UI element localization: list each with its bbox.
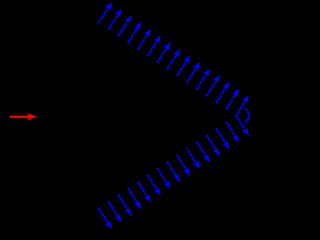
blue wave arrow, bottom front #5 <box>138 181 151 202</box>
blue wave arrow, top front #13 <box>216 82 229 103</box>
blue wave arrow, top front #9 <box>177 55 190 76</box>
blue wave arrow, bottom front #9 <box>177 155 190 176</box>
blue wave arrow, top front #3 <box>118 15 131 36</box>
blue wave arrow, bottom front #2 <box>108 201 121 222</box>
blue wave arrow, bottom front #6 <box>147 175 160 196</box>
blue wave arrow, bottom front #3 <box>118 195 131 216</box>
blue wave arrow, top front #15 <box>236 95 249 116</box>
blue wave arrow, top front #12 <box>206 75 219 96</box>
blue wave arrow, top front #8 <box>167 49 180 70</box>
blue wave arrow, top front #1 <box>98 2 111 23</box>
blue wave arrow, bottom front #16 <box>245 108 258 129</box>
blue wave arrow, top front #6 <box>147 35 160 56</box>
blue wave arrow, top front #2 <box>108 9 121 30</box>
blue wave arrow, bottom front #10 <box>187 148 200 169</box>
blue wave arrow, bottom front #4 <box>128 188 141 209</box>
blue wave arrow, bottom front #15 <box>236 115 249 136</box>
shock-wave diagram <box>0 0 250 232</box>
blue wave arrow, bottom front #12 <box>206 135 219 156</box>
blue wave arrow, bottom front #14 <box>226 122 239 143</box>
blue wave arrow, top front #16 <box>245 102 258 123</box>
blue wave arrow, top front #4 <box>128 22 141 43</box>
blue wave arrow, top front #10 <box>187 62 200 83</box>
blue wave arrow, top front #7 <box>157 42 170 63</box>
blue wave arrow, top front #11 <box>196 69 209 90</box>
blue wave arrow, bottom front #11 <box>196 142 209 163</box>
red velocity arrow <box>10 113 37 120</box>
blue wave arrow, top front #5 <box>138 29 151 50</box>
blue wave arrow, bottom front #8 <box>167 161 180 182</box>
blue wave arrow, bottom front #13 <box>216 128 229 149</box>
blue wave arrow, bottom front #7 <box>157 168 170 189</box>
blue wave arrow, bottom front #1 <box>98 208 111 229</box>
blue wave arrow, top front #14 <box>226 88 239 109</box>
